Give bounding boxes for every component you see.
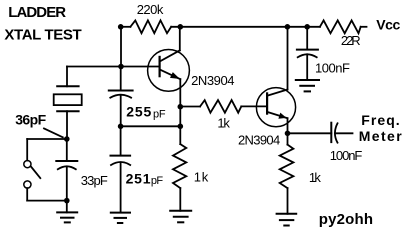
svg-text:2N3904: 2N3904 — [238, 133, 280, 148]
svg-text:2N3904: 2N3904 — [191, 73, 234, 88]
svg-text:22R: 22R — [341, 33, 361, 48]
svg-text:py2ohh: py2ohh — [319, 211, 373, 228]
svg-text:1k: 1k — [309, 170, 322, 185]
svg-text:pF: pF — [151, 175, 163, 187]
svg-text:251: 251 — [126, 170, 151, 186]
svg-text:Vcc: Vcc — [376, 17, 400, 33]
svg-text:1k: 1k — [217, 115, 230, 130]
svg-text:XTAL TEST: XTAL TEST — [4, 27, 81, 44]
svg-text:33pF: 33pF — [81, 173, 108, 188]
svg-text:255: 255 — [126, 103, 151, 119]
svg-text:36pF: 36pF — [15, 112, 46, 128]
svg-text:Meter: Meter — [359, 128, 403, 144]
svg-text:100nF: 100nF — [315, 61, 350, 76]
svg-text:100nF: 100nF — [330, 148, 363, 163]
svg-text:220k: 220k — [137, 2, 164, 17]
svg-text:Freq.: Freq. — [361, 112, 399, 128]
svg-text:1k: 1k — [194, 169, 209, 184]
svg-text:pF: pF — [153, 108, 166, 120]
svg-text:LADDER: LADDER — [8, 4, 66, 21]
